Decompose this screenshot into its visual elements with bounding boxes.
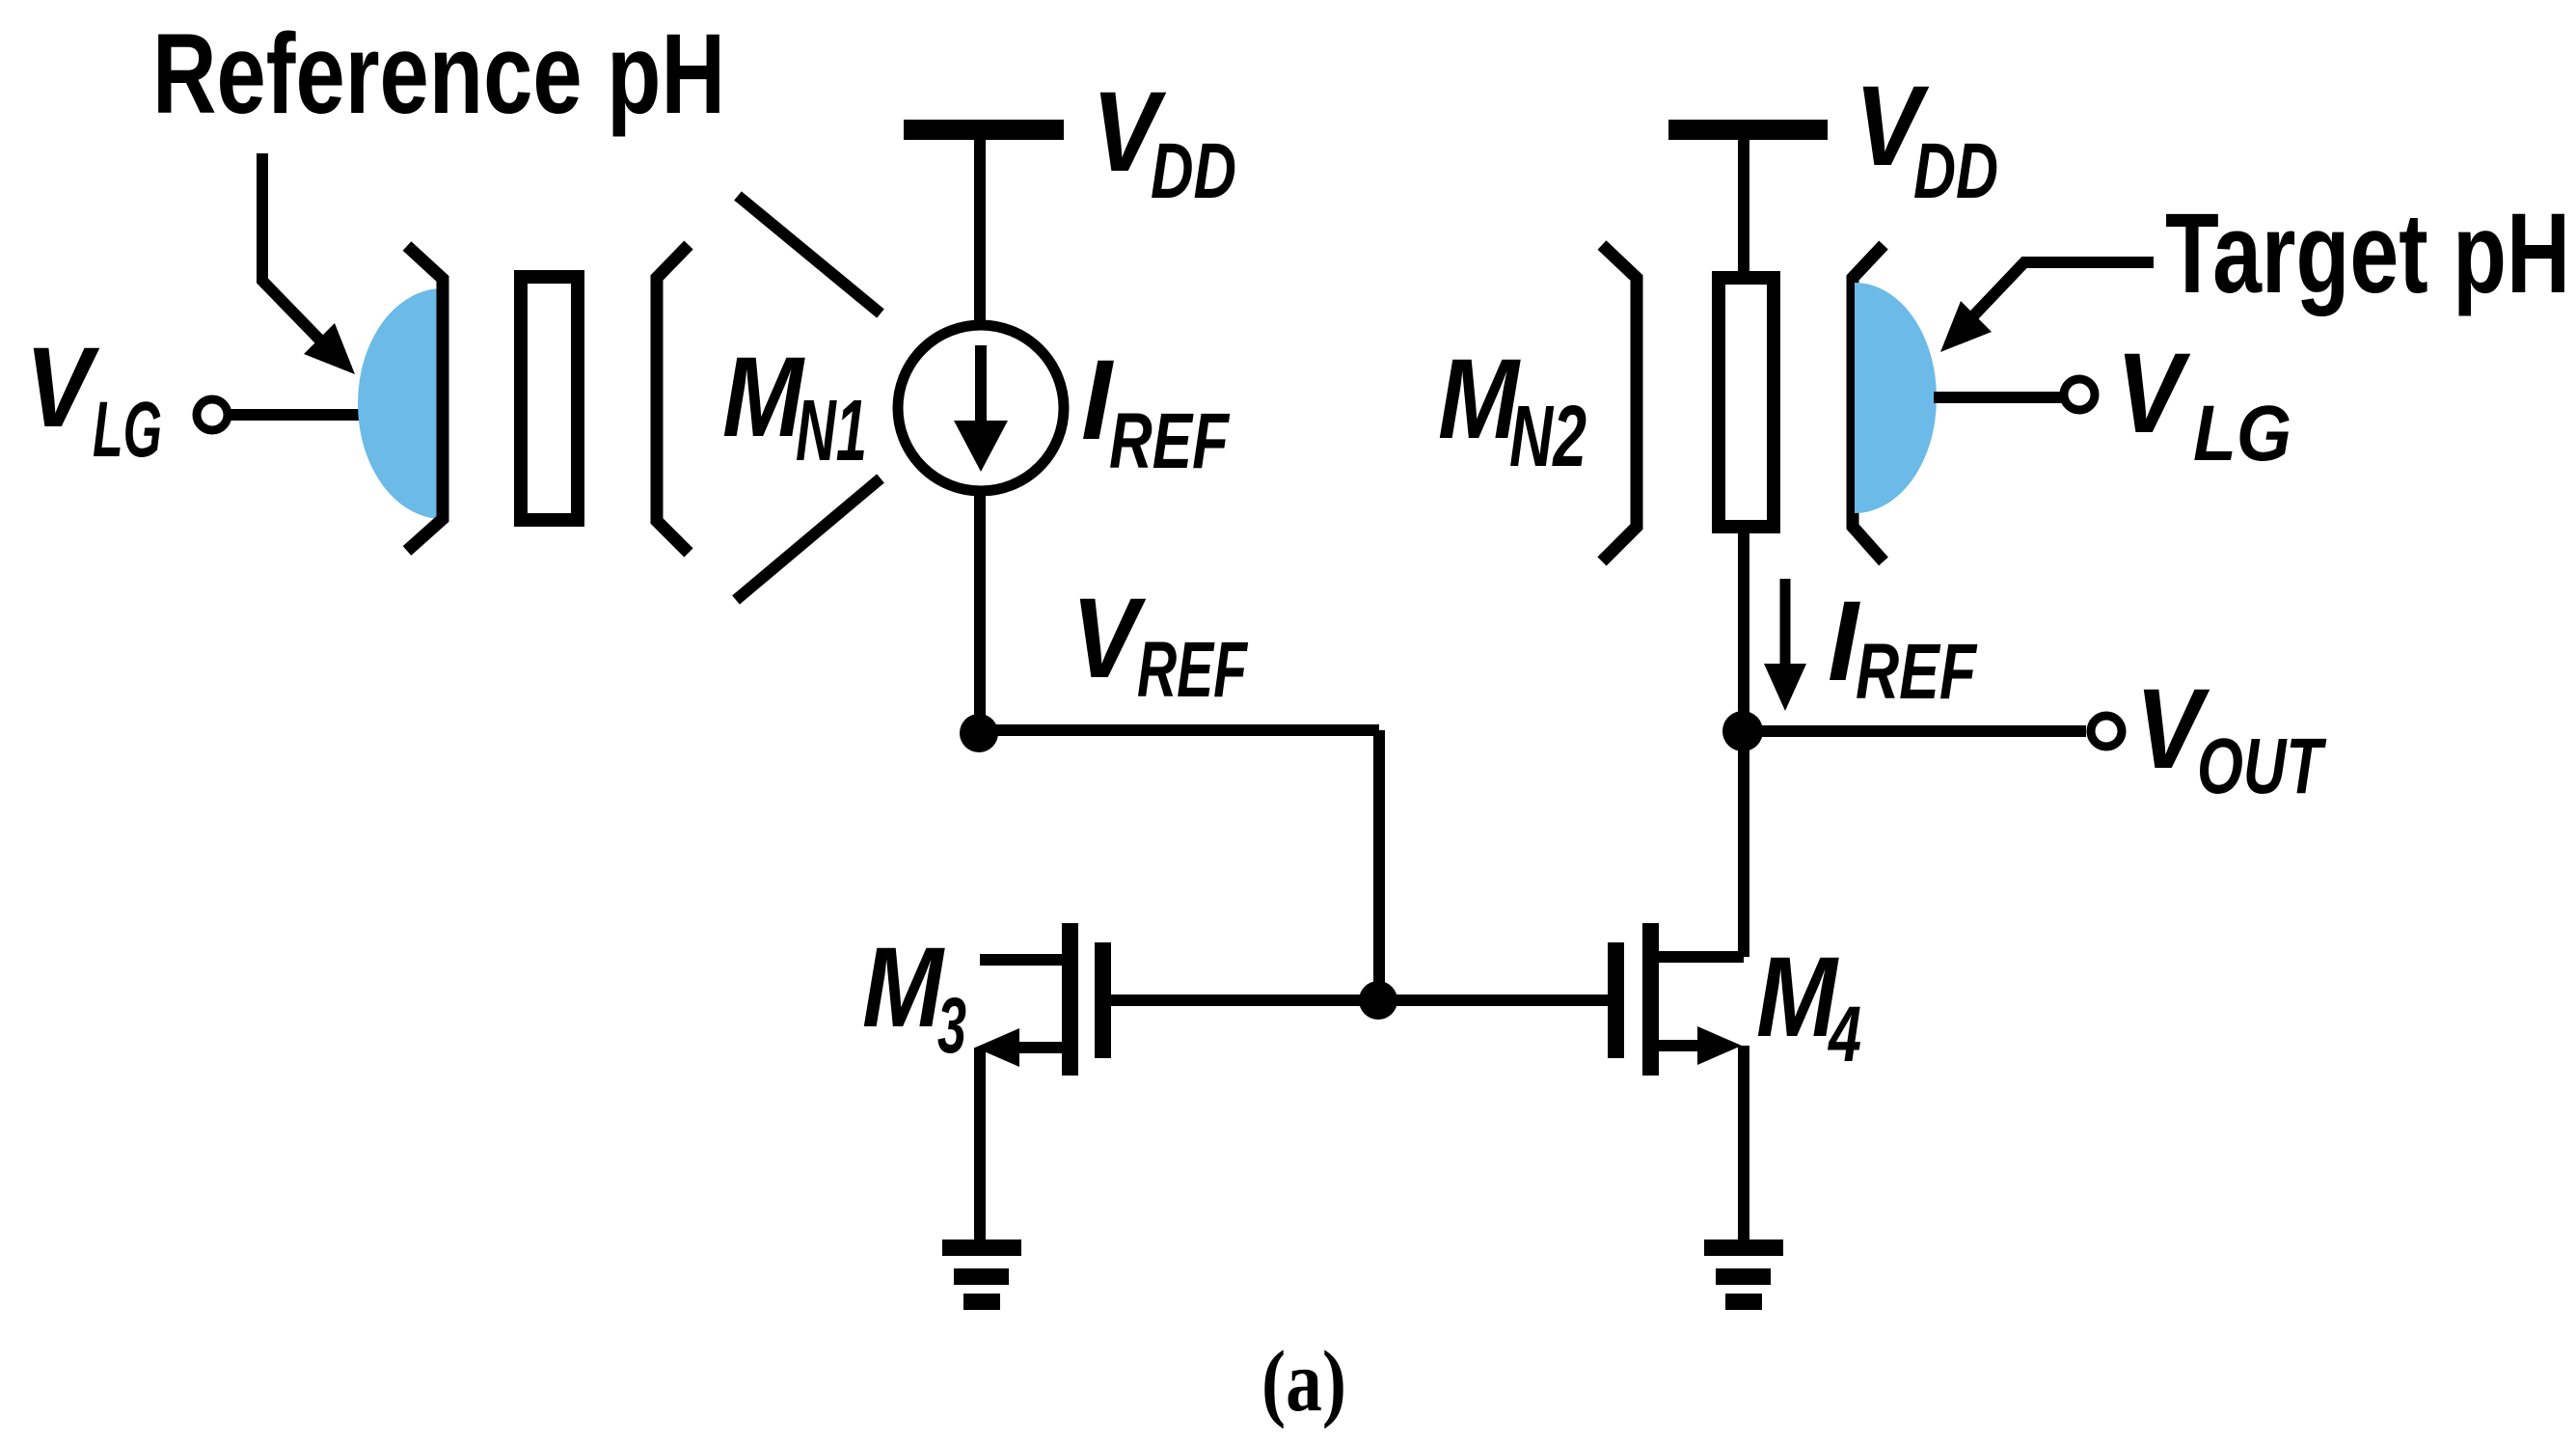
- bracket (left ISFET, outer): [657, 245, 689, 553]
- channel plate (right ISFET): [1719, 278, 1774, 527]
- power rail VDD (right): [1668, 120, 1828, 140]
- svg-text:DD: DD: [1151, 127, 1236, 215]
- svg-text:OUT: OUT: [2197, 722, 2326, 810]
- svg-text:M: M: [862, 924, 945, 1051]
- bracket (right ISFET, right): [1853, 245, 1884, 561]
- svg-text:3: 3: [937, 982, 966, 1070]
- svg-text:V: V: [2116, 330, 2190, 457]
- bracket (right ISFET, left): [1602, 245, 1637, 561]
- transistor M4 channel bar: [1642, 923, 1659, 1076]
- ground (right): [1704, 1240, 1783, 1310]
- svg-text:REF: REF: [1856, 628, 1977, 716]
- gate node junction dot: [1359, 981, 1397, 1020]
- wire current source to node VREF: [974, 488, 986, 743]
- svg-text:Reference pH: Reference pH: [152, 11, 725, 138]
- svg-text:DD: DD: [1913, 127, 1998, 215]
- current arrow IREF (right branch): [1764, 579, 1806, 711]
- wire VLG to droplet: [229, 409, 365, 421]
- svg-text:V: V: [25, 324, 99, 451]
- reference electrolyte droplet (blue): [358, 288, 443, 519]
- target electrolyte droplet (blue): [1855, 283, 1937, 513]
- terminal VOUT: [2091, 716, 2122, 747]
- svg-text:N1: N1: [796, 383, 867, 479]
- svg-text:LG: LG: [2193, 390, 2291, 477]
- gate oxide plate (left ISFET): [521, 277, 578, 520]
- transistor M3 gate bar: [1095, 942, 1111, 1058]
- transistor M3 channel bar: [1062, 923, 1078, 1076]
- wire channel plate to output node: [1738, 527, 1749, 743]
- svg-text:V: V: [1071, 575, 1146, 702]
- bracket (left ISFET, inner): [407, 246, 443, 551]
- svg-text:4: 4: [1828, 991, 1861, 1078]
- svg-text:REF: REF: [1137, 626, 1248, 714]
- svg-text:M: M: [722, 334, 805, 461]
- svg-text:Target pH: Target pH: [2165, 190, 2570, 317]
- wire M3 gate: [1111, 994, 1378, 1006]
- ground (left): [942, 1240, 1021, 1310]
- svg-text:REF: REF: [1109, 397, 1230, 485]
- wire M4 gate: [1378, 994, 1608, 1006]
- leader arrow to target droplet: [1940, 262, 2154, 352]
- current source IREF (circle): [898, 325, 1064, 491]
- node VOUT junction dot: [1722, 711, 1763, 751]
- terminal VLG (left): [197, 399, 228, 430]
- current source arrow: [954, 345, 1008, 472]
- svg-text:LG: LG: [93, 386, 162, 474]
- wire VREF to gate node (vertical): [1373, 730, 1385, 1000]
- power rail VDD (left): [904, 120, 1064, 140]
- svg-text:(a): (a): [1261, 1334, 1346, 1430]
- transistor M4 gate bar: [1608, 942, 1624, 1058]
- wire M3 source with arrow: [975, 1028, 1062, 1067]
- wire M3 drain: [980, 954, 1062, 966]
- wire VREF node to gates (horizontal): [979, 724, 1379, 736]
- expansion line lower (MN1): [736, 478, 881, 600]
- leader arrow to reference droplet: [262, 153, 355, 374]
- wire M4 drain: [1659, 733, 1744, 957]
- wire M4 source to ground: [1738, 1046, 1749, 1246]
- node VREF junction dot: [960, 714, 998, 752]
- wire droplet to VLG (right): [1934, 392, 2064, 403]
- wire M4 source with arrow: [1659, 1026, 1742, 1065]
- wire M3 source to ground: [974, 1048, 986, 1246]
- wire VDD to channel plate (right): [1738, 138, 1749, 280]
- terminal VLG (right): [2064, 379, 2095, 410]
- wire VDD to current source: [974, 138, 986, 328]
- svg-text:N2: N2: [1509, 389, 1586, 485]
- wire node to VOUT terminal: [1743, 725, 2086, 737]
- svg-text:M: M: [1756, 934, 1839, 1061]
- expansion line upper (MN1): [738, 196, 881, 313]
